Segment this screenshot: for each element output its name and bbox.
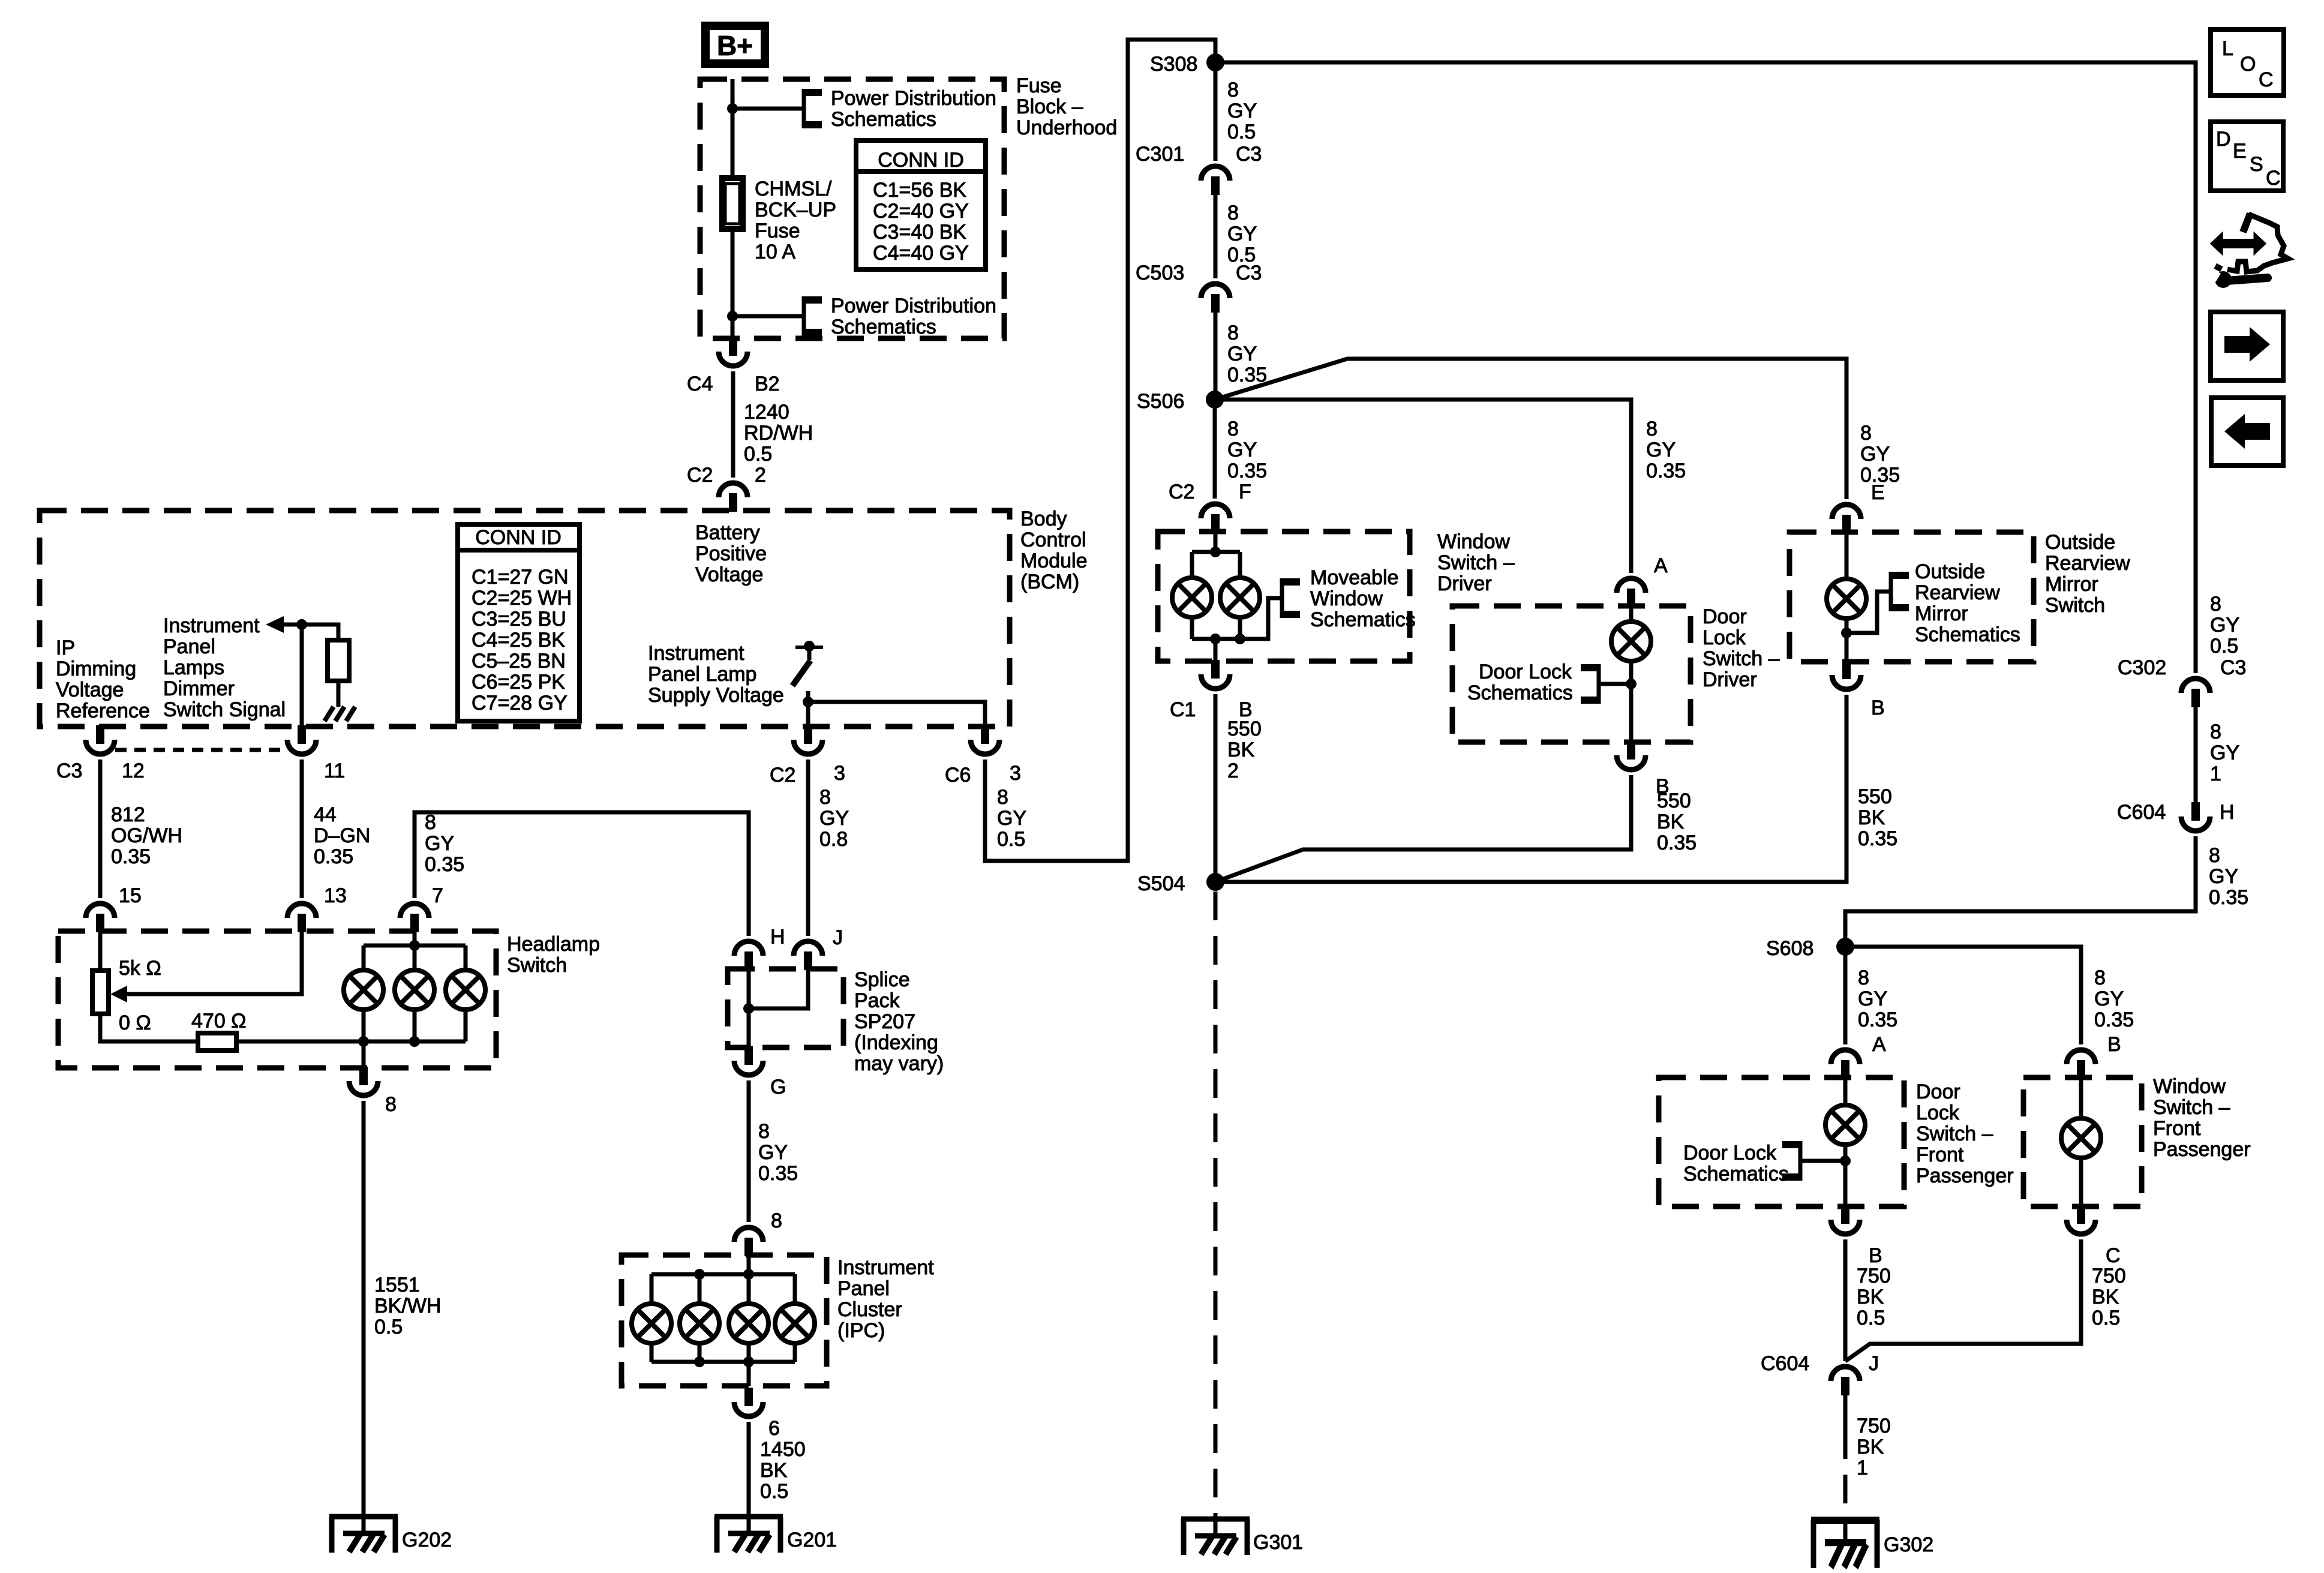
- svg-text:Passenger: Passenger: [1916, 1164, 2014, 1187]
- lamp 3 (IPC): [729, 1304, 768, 1343]
- svg-text:S504: S504: [1137, 872, 1185, 895]
- svg-text:Panel: Panel: [163, 635, 215, 658]
- svg-text:8: 8: [1858, 966, 1869, 989]
- svg-text:H: H: [770, 926, 785, 948]
- svg-text:Voltage: Voltage: [56, 679, 124, 701]
- svg-text:C3: C3: [2220, 656, 2246, 679]
- net label: Instrument Panel Lamp Supply Voltage: [648, 642, 784, 707]
- svg-text:CONN ID: CONN ID: [878, 149, 964, 172]
- lamp 2 (window driver): [1220, 578, 1260, 617]
- svg-text:(Indexing: (Indexing: [854, 1031, 938, 1054]
- svg-text:GY: GY: [1227, 343, 1257, 365]
- svg-text:J: J: [833, 926, 843, 949]
- schematic reference bracket: Door Lock: [1782, 1141, 1800, 1181]
- svg-text:Switch –: Switch –: [2153, 1096, 2230, 1119]
- component label: Splice Pack SP207: [854, 968, 944, 1075]
- svg-text:Moveable: Moveable: [1310, 566, 1398, 589]
- arrow into dimmer signal: [266, 616, 284, 633]
- svg-text:Front: Front: [1916, 1143, 1964, 1166]
- connector C3 pin 11 (BCM exit): [287, 725, 316, 754]
- node: lamp2 bottom junction: [1235, 634, 1245, 644]
- svg-text:CHMSL/: CHMSL/: [755, 178, 832, 200]
- svg-text:0.5: 0.5: [760, 1480, 788, 1503]
- svg-text:may vary): may vary): [854, 1052, 944, 1075]
- bracket wire: [1800, 1159, 1845, 1163]
- wire S608 down to door lock passenger: [1843, 947, 1848, 1044]
- svg-text:C503: C503: [1136, 262, 1184, 284]
- svg-text:1: 1: [1857, 1457, 1868, 1479]
- svg-text:0.5: 0.5: [744, 443, 772, 466]
- svg-text:470 Ω: 470 Ω: [191, 1010, 247, 1032]
- connector pin A (door lock passenger entry): [1831, 1050, 1860, 1079]
- window passenger dashed box: [2023, 1077, 2142, 1206]
- connector C302 C3 (inline): [2181, 679, 2210, 707]
- svg-text:0.35: 0.35: [1860, 464, 1900, 487]
- splice internal wires: [749, 969, 808, 1008]
- lamp 2 (headlamp switch): [395, 970, 434, 1010]
- svg-text:Schematics: Schematics: [1915, 623, 2020, 646]
- exit wire: [1214, 639, 1218, 661]
- svg-text:Driver: Driver: [1703, 668, 1757, 691]
- svg-text:A: A: [1872, 1033, 1886, 1056]
- svg-text:3: 3: [834, 762, 845, 785]
- svg-text:Control: Control: [1020, 529, 1086, 551]
- connector pin B (mirror switch exit): [1832, 661, 1861, 689]
- wire IP dimming ref down to pin 12: [98, 727, 103, 728]
- svg-text:15: 15: [119, 884, 142, 907]
- svg-text:Schematics: Schematics: [1310, 608, 1416, 631]
- schematic reference bracket: Power Distribution (top): [804, 89, 822, 128]
- connector C2 pin 2 (BCM entry): [719, 483, 747, 512]
- resistor (BCM internal pull-up): [328, 640, 349, 681]
- wire pin11 to headlamp pin13: [300, 760, 304, 898]
- svg-text:GY: GY: [425, 832, 454, 855]
- svg-text:8: 8: [758, 1120, 770, 1143]
- svg-text:GY: GY: [1860, 443, 1890, 466]
- svg-text:Switch Signal: Switch Signal: [163, 698, 286, 721]
- svg-text:0.35: 0.35: [758, 1162, 798, 1185]
- svg-text:GY: GY: [1646, 439, 1676, 461]
- svg-text:Instrument: Instrument: [648, 642, 744, 665]
- ground G301: [1181, 1519, 1250, 1555]
- node: bottom bus exit junction: [1210, 634, 1221, 644]
- svg-text:C3: C3: [56, 760, 82, 782]
- connector pin 7 (headlamp entry): [400, 903, 429, 932]
- svg-text:C3=40 BK: C3=40 BK: [873, 221, 966, 244]
- svg-text:H: H: [2220, 801, 2235, 824]
- wire resistor to internal ground: [337, 681, 341, 707]
- node on IPC top bus: [694, 1269, 705, 1280]
- svg-text:B: B: [1871, 697, 1885, 719]
- wire 750 BK 1: [1843, 1395, 1848, 1430]
- svg-text:C1: C1: [1170, 698, 1196, 721]
- node: feed junction: [1210, 547, 1221, 557]
- LOC icon box: [2211, 29, 2284, 95]
- splice S504: [1206, 873, 1224, 891]
- svg-text:BK: BK: [1657, 810, 1685, 833]
- svg-text:Schematics: Schematics: [1683, 1163, 1789, 1185]
- svg-text:CONN ID: CONN ID: [475, 526, 562, 549]
- node: junction to power distribution (top): [727, 103, 738, 114]
- svg-text:BK: BK: [1227, 739, 1255, 761]
- svg-text:C5–25 BN: C5–25 BN: [472, 650, 566, 673]
- svg-text:BK: BK: [760, 1459, 788, 1482]
- svg-text:BK: BK: [1858, 806, 1885, 829]
- wire label 8 GY 1: [2210, 721, 2239, 785]
- svg-text:Passenger: Passenger: [2153, 1138, 2251, 1161]
- svg-text:0.35: 0.35: [111, 845, 151, 868]
- wire label 44 D-GN 0.35: [314, 803, 370, 868]
- svg-text:Dimmer: Dimmer: [163, 677, 235, 700]
- svg-text:Lamps: Lamps: [163, 656, 224, 679]
- wire S608 to window passenger: [1845, 947, 2081, 1044]
- wire 550 BK 0.35 to S504: [1215, 775, 1631, 882]
- svg-text:GY: GY: [1227, 223, 1257, 245]
- connector J (splice entry): [794, 941, 822, 970]
- svg-text:750: 750: [1857, 1415, 1891, 1437]
- svg-text:0.35: 0.35: [2209, 886, 2248, 909]
- wire label 812 OG/WH 0.35: [111, 803, 182, 868]
- svg-text:8: 8: [1227, 79, 1239, 101]
- connector H (splice entry): [734, 941, 763, 970]
- svg-text:Door: Door: [1703, 605, 1747, 628]
- svg-text:550: 550: [1858, 785, 1892, 808]
- svg-text:C: C: [2266, 167, 2281, 190]
- connector pin B (door lock driver exit): [1617, 741, 1646, 770]
- svg-text:GY: GY: [819, 807, 849, 830]
- wire dimmer junction down to pin 11: [300, 625, 304, 728]
- svg-text:SP207: SP207: [854, 1010, 915, 1033]
- net label: Instrument Panel Lamps Dimmer Switch Signal: [163, 614, 286, 721]
- wire headlamp pin7 riser: [415, 812, 749, 936]
- splice S308: [1206, 53, 1224, 71]
- svg-text:Schematics: Schematics: [831, 316, 936, 338]
- svg-text:Schematics: Schematics: [831, 108, 936, 131]
- fuse block dashed box: [700, 79, 1004, 338]
- svg-text:A: A: [1654, 554, 1668, 577]
- connector C604 pin H (inline): [2181, 802, 2210, 831]
- svg-text:Supply Voltage: Supply Voltage: [648, 684, 784, 707]
- node: switch output junction: [803, 697, 813, 707]
- svg-text:0.35: 0.35: [2094, 1008, 2134, 1031]
- wire C503 to S506: [1214, 313, 1218, 400]
- ground G302: [1811, 1520, 1879, 1568]
- svg-text:3: 3: [1010, 762, 1021, 785]
- svg-text:GY: GY: [1227, 439, 1257, 461]
- svg-text:Lock: Lock: [1703, 626, 1746, 649]
- ground G201: [714, 1517, 783, 1553]
- svg-text:GY: GY: [1227, 100, 1257, 122]
- mirror switch dashed box: [1789, 532, 2034, 662]
- bracket wire: [1599, 682, 1631, 686]
- door lock passenger dashed box: [1659, 1077, 1904, 1206]
- lamp to exit: [1845, 619, 1849, 662]
- net label: IP Dimming Voltage Reference: [56, 637, 150, 722]
- svg-text:5k Ω: 5k Ω: [119, 957, 161, 980]
- svg-text:GY: GY: [2094, 987, 2124, 1010]
- svg-text:12: 12: [122, 760, 145, 782]
- svg-text:C3: C3: [1236, 262, 1262, 284]
- component label: Headlamp Switch: [507, 933, 600, 977]
- connector C604 pin J: [1831, 1367, 1860, 1395]
- svg-text:J: J: [1869, 1352, 1879, 1375]
- wire resistor to lamp bus: [236, 1040, 466, 1044]
- fuse CHMSL/BCK-UP 10A: [722, 178, 743, 229]
- svg-text:Body: Body: [1020, 508, 1067, 530]
- connector pin 8 (headlamp exit): [349, 1067, 378, 1095]
- feed wire and top bus: [1214, 532, 1218, 552]
- svg-text:0.35: 0.35: [1227, 460, 1267, 482]
- potentiometer 5k: [98, 931, 103, 971]
- svg-text:D–GN: D–GN: [314, 824, 370, 847]
- svg-text:C301: C301: [1136, 143, 1184, 166]
- wire fuse to C4: [731, 229, 735, 340]
- component label: IPC: [837, 1256, 934, 1342]
- svg-text:Panel Lamp: Panel Lamp: [648, 663, 756, 686]
- connector C503 C3 (inline): [1201, 284, 1230, 313]
- lamp 3 (headlamp switch): [446, 970, 485, 1010]
- internal ground hatches: [325, 707, 355, 721]
- lamp stubs: [651, 1274, 795, 1304]
- lamp 1 (window driver): [1172, 578, 1212, 617]
- svg-text:C1=27 GN: C1=27 GN: [472, 566, 569, 589]
- svg-text:C2: C2: [1169, 481, 1194, 503]
- bracket wire: [1846, 592, 1891, 633]
- wire label 8 GY 0.35 (below S506): [1227, 418, 1267, 482]
- connector pin 8 (IPC entry): [734, 1227, 763, 1256]
- svg-text:550: 550: [1227, 718, 1262, 740]
- connector pin 13 (headlamp entry): [287, 903, 316, 932]
- component label: BCM: [1020, 508, 1088, 593]
- lamp feed: [2079, 1077, 2083, 1118]
- lamp to exit: [2079, 1158, 2083, 1206]
- wire pot bottom to 470 resistor: [100, 1014, 198, 1041]
- svg-text:BK/WH: BK/WH: [374, 1295, 441, 1317]
- svg-text:Underhood: Underhood: [1016, 116, 1117, 139]
- svg-text:G: G: [770, 1076, 786, 1098]
- svg-text:(BCM): (BCM): [1020, 571, 1079, 593]
- svg-text:7: 7: [432, 884, 443, 907]
- svg-text:Splice: Splice: [854, 968, 910, 991]
- component label: Fuse Block - Underhood: [1016, 74, 1117, 139]
- node: junction to power distribution (bottom): [727, 311, 738, 322]
- svg-text:B+: B+: [717, 30, 753, 61]
- svg-text:8: 8: [1646, 418, 1658, 440]
- svg-text:Battery: Battery: [695, 521, 760, 544]
- svg-text:0.5: 0.5: [1857, 1307, 1885, 1329]
- svg-text:B2: B2: [755, 373, 780, 395]
- headlamp switch dashed box: [58, 931, 496, 1068]
- wiper arrow into potentiometer: [127, 931, 302, 994]
- svg-text:8: 8: [425, 811, 436, 834]
- node on IPC bottom bus (exit): [743, 1356, 754, 1367]
- svg-text:C7=28 GY: C7=28 GY: [472, 692, 568, 715]
- svg-text:8: 8: [2210, 593, 2221, 616]
- ground G202: [329, 1517, 398, 1553]
- node: splice junction: [743, 1003, 754, 1014]
- svg-text:Door Lock: Door Lock: [1683, 1142, 1777, 1164]
- lamp feed: [1845, 532, 1849, 579]
- svg-text:OG/WH: OG/WH: [111, 824, 182, 847]
- svg-text:C302: C302: [2118, 656, 2166, 679]
- svg-text:8: 8: [819, 786, 831, 809]
- svg-text:0.35: 0.35: [425, 853, 464, 876]
- window switch driver dashed box: [1158, 532, 1410, 661]
- svg-text:C: C: [2106, 1244, 2121, 1267]
- svg-text:Rearview: Rearview: [2045, 552, 2130, 575]
- wire label 8 GY 0.35: [2209, 844, 2248, 909]
- svg-text:C6=25 PK: C6=25 PK: [472, 671, 565, 694]
- svg-text:Power Distribution: Power Distribution: [831, 87, 996, 110]
- node: bracket junction: [1841, 628, 1852, 638]
- wire C2 pin3 to splice pack J: [806, 760, 810, 936]
- svg-text:0.5: 0.5: [2210, 635, 2238, 658]
- connector pin 15 (headlamp entry): [86, 903, 115, 932]
- svg-text:0.35: 0.35: [1858, 1008, 1897, 1031]
- CONN ID table (fuse block): [856, 140, 986, 269]
- wire arrow to resistor corner: [284, 625, 338, 640]
- wire pin7 into lamp bus: [413, 931, 417, 945]
- wire label 8 GY 0.35: [1646, 418, 1686, 482]
- wire to bracket: [732, 107, 804, 111]
- svg-text:Mirror: Mirror: [2045, 573, 2098, 596]
- svg-text:8: 8: [1227, 322, 1239, 344]
- svg-text:Rearview: Rearview: [1915, 581, 2000, 604]
- svg-text:2: 2: [1227, 760, 1239, 782]
- connector pin 6 (IPC exit): [734, 1388, 763, 1416]
- svg-text:812: 812: [111, 803, 145, 826]
- svg-text:550: 550: [1657, 789, 1691, 812]
- CONN ID table (BCM): [458, 524, 580, 721]
- svg-text:0.35: 0.35: [1858, 827, 1897, 850]
- svg-text:0.5: 0.5: [2092, 1307, 2120, 1329]
- wire label 8 GY 0.5 (above C302): [2210, 593, 2239, 658]
- wire label 8 GY 0.35 (left): [1858, 966, 1897, 1031]
- svg-text:D: D: [2216, 128, 2231, 151]
- wire label 8 GY 0.5: [997, 786, 1026, 851]
- schematic reference bracket: Outside Rearview Mirror: [1891, 572, 1909, 611]
- svg-text:0.5: 0.5: [374, 1316, 403, 1338]
- node: lamp1 bottom junction: [358, 1036, 369, 1047]
- node: lamp2 bottom junction: [409, 1036, 420, 1047]
- svg-text:GY: GY: [2210, 614, 2239, 637]
- lamp (door lock passenger): [1825, 1105, 1865, 1145]
- svg-text:Module: Module: [1020, 550, 1088, 572]
- svg-text:Reference: Reference: [56, 700, 150, 722]
- svg-text:C3=25 BU: C3=25 BU: [472, 608, 566, 631]
- svg-text:C2=40 GY: C2=40 GY: [873, 200, 969, 223]
- wire C6 pin3 up and over to S308: [985, 40, 1215, 861]
- svg-text:C2: C2: [687, 464, 713, 487]
- svg-text:BCK–UP: BCK–UP: [755, 199, 836, 221]
- svg-text:Voltage: Voltage: [695, 563, 763, 586]
- component label: Window Switch - Driver: [1437, 530, 1515, 595]
- IPC exit wire: [747, 1362, 751, 1386]
- wire S506 to door lock driver column: [1215, 400, 1631, 573]
- DESC icon box: [2211, 122, 2283, 191]
- svg-text:Switch –: Switch –: [1916, 1122, 1993, 1145]
- svg-text:GY: GY: [2209, 865, 2238, 888]
- lamp (window passenger): [2061, 1118, 2101, 1158]
- svg-text:C604: C604: [1761, 1352, 1809, 1375]
- bottom bus: [1192, 598, 1282, 639]
- Body Control Module dashed box: [40, 511, 1010, 727]
- connector pin B (window passenger entry): [2067, 1050, 2095, 1079]
- splice pack dashed box: [728, 969, 843, 1047]
- svg-text:8: 8: [1227, 202, 1239, 224]
- svg-text:0.5: 0.5: [1227, 121, 1256, 143]
- IPC top bus: [651, 1272, 795, 1277]
- svg-text:Fuse: Fuse: [755, 220, 800, 242]
- svg-text:0.35: 0.35: [314, 845, 353, 868]
- schematic reference bracket: Moveable Window: [1282, 578, 1300, 618]
- node on top bus: [409, 940, 420, 951]
- svg-text:Instrument: Instrument: [163, 614, 260, 637]
- svg-text:IP: IP: [56, 637, 75, 659]
- svg-text:C4: C4: [687, 373, 713, 395]
- svg-text:BK: BK: [2092, 1286, 2119, 1308]
- svg-text:Front: Front: [2153, 1117, 2201, 1140]
- connector pin A (door lock driver entry): [1617, 578, 1646, 607]
- svg-text:Outside: Outside: [2045, 531, 2115, 554]
- svg-text:Headlamp: Headlamp: [507, 933, 600, 956]
- svg-text:G201: G201: [787, 1529, 837, 1551]
- svg-text:Switch: Switch: [2045, 594, 2105, 617]
- forward arrow icon box: [2211, 312, 2283, 380]
- svg-text:Lock: Lock: [1916, 1101, 1960, 1124]
- svg-text:0.8: 0.8: [819, 828, 848, 851]
- svg-text:C2: C2: [770, 764, 795, 786]
- svg-text:750: 750: [1857, 1265, 1891, 1287]
- wire 550 BK 2 to S504: [1214, 694, 1218, 882]
- svg-text:8: 8: [997, 786, 1008, 809]
- wire label 8 GY 0.35 (right): [2094, 966, 2134, 1031]
- component label: Door Lock Switch - Front Passenger: [1916, 1080, 2014, 1187]
- wire C301 to C503: [1214, 195, 1218, 278]
- lamp to exit: [1843, 1145, 1848, 1206]
- wire label 550 BK 0.35: [1858, 785, 1897, 850]
- svg-text:O: O: [2240, 53, 2256, 76]
- wire 1450 BK to G201: [747, 1422, 751, 1517]
- IPC feed wire: [747, 1255, 751, 1274]
- svg-text:Pack: Pack: [854, 989, 900, 1012]
- lamp feed: [1629, 606, 1634, 622]
- svg-text:1: 1: [2210, 763, 2221, 785]
- lamp (door lock driver): [1611, 622, 1651, 661]
- svg-text:G301: G301: [1253, 1531, 1303, 1554]
- switch (BCM internal, IP lamp supply): [792, 641, 823, 702]
- svg-text:RD/WH: RD/WH: [744, 422, 813, 445]
- wire label 8 GY 0.35 (pin7): [425, 811, 464, 876]
- lamp (mirror switch): [1827, 579, 1866, 619]
- svg-text:C6: C6: [945, 764, 971, 786]
- connector C3 pin 12 (BCM exit): [86, 725, 115, 754]
- back arrow icon box: [2211, 398, 2283, 466]
- svg-text:8: 8: [385, 1093, 397, 1116]
- svg-text:Dimming: Dimming: [56, 658, 136, 680]
- wire S506 diagonal to mirror switch column: [1215, 359, 1846, 499]
- svg-text:Outside: Outside: [1915, 560, 1985, 583]
- svg-text:Fuse: Fuse: [1016, 74, 1062, 97]
- svg-text:S608: S608: [1766, 937, 1813, 960]
- svg-text:B: B: [1869, 1244, 1882, 1267]
- svg-text:0.35: 0.35: [1227, 364, 1267, 386]
- splice S506: [1206, 391, 1224, 409]
- wire switch down to C2 pin 3: [806, 702, 810, 728]
- node on IPC top bus (feed): [743, 1269, 754, 1280]
- svg-text:8: 8: [771, 1209, 782, 1232]
- wire to bracket: [732, 314, 804, 319]
